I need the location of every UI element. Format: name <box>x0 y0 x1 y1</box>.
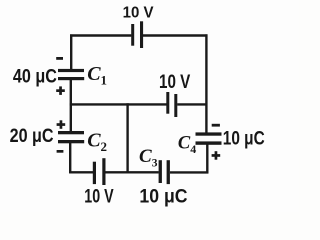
capacitor C3 left plate <box>159 160 162 183</box>
wire bottom segment 1 <box>69 171 93 173</box>
svg-text:10 V: 10 V <box>123 4 155 22</box>
wire left side lower <box>69 143 71 174</box>
svg-text:10 μC: 10 μC <box>223 127 265 149</box>
wire middle-right segment <box>177 103 207 105</box>
capacitor 10V bottom, left plate <box>93 162 96 184</box>
capacitor C4 top plate <box>196 132 222 135</box>
capacitor 10V top, left plate <box>131 24 134 46</box>
capacitor C2 bottom plate <box>58 140 84 143</box>
capacitor 10V bottom, right plate <box>102 158 105 185</box>
capacitor C1 top plate <box>58 69 84 72</box>
svg-text:40 μC: 40 μC <box>13 65 57 87</box>
wire right side lower <box>206 145 208 174</box>
wire middle-left segment <box>70 103 167 105</box>
capacitor C3 right plate <box>167 160 170 184</box>
wire middle vertical <box>126 103 128 172</box>
plus sign below C1 <box>56 89 65 92</box>
capacitor C2 top plate <box>58 131 84 134</box>
minus sign below C2 <box>57 150 64 153</box>
svg-text:10 μC: 10 μC <box>139 185 187 207</box>
wire top-right segment <box>142 34 208 36</box>
minus sign above C4 <box>212 124 220 127</box>
minus sign above C1 <box>56 57 63 60</box>
wire top-left segment <box>70 34 131 36</box>
plus sign below C4 <box>212 154 221 157</box>
wire left side middle <box>70 80 72 132</box>
capacitor 10V middle, right plate <box>174 94 177 117</box>
svg-text:10 V: 10 V <box>84 185 114 206</box>
wire left side upper <box>70 34 72 69</box>
wire right side upper <box>205 34 207 132</box>
wire bottom segment 3 <box>170 171 208 173</box>
capacitor C4 bottom plate <box>196 141 222 144</box>
capacitor C1 bottom plate <box>58 77 84 80</box>
wire bottom segment 2 <box>105 171 158 173</box>
svg-text:20 μC: 20 μC <box>10 125 54 147</box>
svg-text:10 V: 10 V <box>159 70 191 92</box>
capacitor 10V middle, left plate <box>166 92 169 114</box>
plus sign above C2 <box>57 123 66 126</box>
capacitor 10V top, right plate <box>140 21 143 48</box>
